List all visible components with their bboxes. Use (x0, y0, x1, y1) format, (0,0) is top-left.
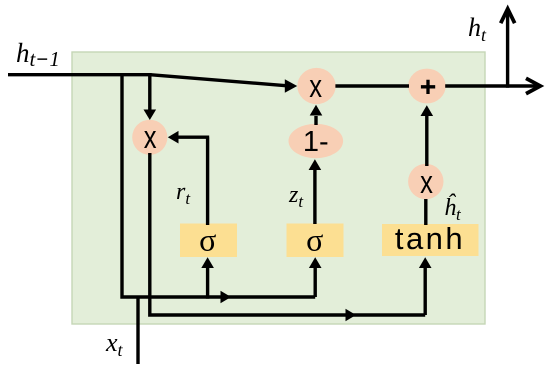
svg-text:σ: σ (199, 222, 216, 258)
svg-text:1-: 1- (303, 126, 329, 158)
svg-text:x: x (309, 69, 322, 104)
svg-text:x: x (144, 120, 157, 155)
svg-text:x: x (420, 165, 433, 200)
svg-text:σ: σ (306, 222, 323, 258)
svg-text:tanh: tanh (395, 221, 465, 256)
